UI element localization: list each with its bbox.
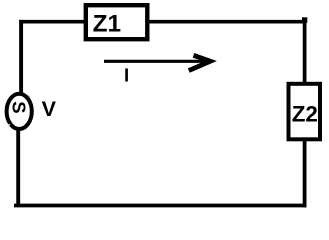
wire right lower segment [303, 140, 307, 207]
wire left upper segment [19, 20, 23, 94]
wire top-left segment [19, 20, 84, 24]
wire bottom segment [14, 204, 306, 208]
current arrow head [189, 55, 211, 70]
stray blue speck lower-left of source circle [8, 124, 10, 126]
impedance Z1 box [86, 5, 148, 39]
junction blob top-right corner [302, 17, 307, 23]
wire left lower segment [16, 130, 20, 206]
impedance Z2 box [289, 84, 321, 140]
AC voltage source circle [7, 94, 32, 129]
svg-text:S: S [9, 101, 30, 113]
svg-text:I: I [124, 65, 129, 86]
svg-text:V: V [42, 97, 57, 121]
wire right upper segment [303, 20, 307, 83]
wire top-right segment [142, 20, 307, 24]
svg-text:Z2: Z2 [292, 101, 318, 126]
current arrow shaft [104, 60, 207, 63]
stray speck inside source circle [28, 96, 30, 98]
svg-text:Z1: Z1 [93, 10, 121, 37]
